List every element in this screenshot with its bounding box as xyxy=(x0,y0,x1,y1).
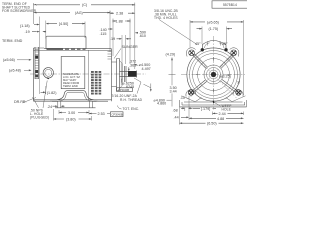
svg-text:.24: .24 xyxy=(47,105,52,109)
centerlines xyxy=(181,74,245,76)
note: terminal end of shaft text xyxy=(2,2,37,13)
dia 3.25 circle xyxy=(198,59,230,91)
thread note 7/16-20 xyxy=(112,94,143,102)
flange plate xyxy=(112,59,123,91)
svg-text:.68: .68 xyxy=(173,108,178,112)
dim .10 xyxy=(180,96,185,100)
svg-text:(6.50): (6.50) xyxy=(207,122,217,126)
svg-text:(PLUGGED): (PLUGGED) xyxy=(30,116,49,120)
top dome conduit hump xyxy=(203,41,227,49)
dim dia .6250/.6245 xyxy=(122,79,135,89)
terminal box xyxy=(44,36,112,49)
dim dia 4.500/4.497 flange pilot xyxy=(134,63,151,71)
svg-text:(⌀5.65): (⌀5.65) xyxy=(207,20,219,24)
svg-text:2.53: 2.53 xyxy=(98,112,105,116)
front bearing steps xyxy=(108,52,112,60)
svg-text:(AG): (AG) xyxy=(75,11,83,15)
svg-text:R.H. THREAD: R.H. THREAD xyxy=(120,98,143,102)
dim 2.38 xyxy=(110,12,135,16)
x mark xyxy=(238,81,240,83)
svg-text:(1.18): (1.18) xyxy=(20,24,30,28)
svg-text:3.00: 3.00 xyxy=(68,111,75,115)
dim .140/.115 stacked xyxy=(100,28,114,36)
rear stub slotted column xyxy=(35,47,39,79)
bolt heads near hump xyxy=(201,48,204,51)
svg-text:(1.75): (1.75) xyxy=(209,27,219,31)
dim dia 4.890/4.860 xyxy=(154,98,167,105)
svg-text:.115: .115 xyxy=(100,32,107,36)
top-right lug + hole xyxy=(230,48,239,57)
svg-text:45°: 45° xyxy=(195,42,201,46)
title block box xyxy=(212,1,248,8)
slinger disc xyxy=(125,66,127,82)
vent slots xyxy=(91,71,101,95)
svg-text:FOR SCREWDRIVER: FOR SCREWDRIVER xyxy=(2,9,37,13)
shaft centerline xyxy=(30,73,146,75)
motor shell outline xyxy=(34,48,112,101)
svg-text:[.179]: [.179] xyxy=(201,107,210,111)
dim (AG) xyxy=(34,11,111,15)
dim .19 left xyxy=(25,17,47,47)
svg-text:4.497: 4.497 xyxy=(142,67,151,71)
svg-text:[4.50]: [4.50] xyxy=(59,22,68,26)
svg-text:.19: .19 xyxy=(110,37,115,41)
svg-text:SLINGER: SLINGER xyxy=(122,45,139,49)
svg-text:1.88: 1.88 xyxy=(116,19,123,23)
(dia 3.25) label xyxy=(219,74,231,78)
dim .68 xyxy=(173,107,193,112)
dim .24 xyxy=(47,105,65,109)
dim (C) overall length xyxy=(34,3,135,24)
top-left lug + hole xyxy=(186,48,195,57)
svg-text:TERM. END: TERM. END xyxy=(2,39,23,43)
svg-text:TOT. ENC.: TOT. ENC. xyxy=(123,107,140,111)
dim .590/.610 xyxy=(135,30,146,38)
cover screws xyxy=(47,48,64,50)
nameplate xyxy=(61,57,85,89)
svg-text:4.860: 4.860 xyxy=(157,102,166,106)
dim [.179] xyxy=(193,107,217,111)
svg-text:(1.82): (1.82) xyxy=(47,91,57,95)
svg-text:(⌀5.66): (⌀5.66) xyxy=(3,58,15,62)
svg-text:(⌀5.48): (⌀5.48) xyxy=(9,69,21,73)
TOT. ENC. label xyxy=(123,107,140,111)
svg-text:.610: .610 xyxy=(139,34,146,38)
dim (1.82) xyxy=(40,46,57,95)
svg-text:CP3040B: CP3040B xyxy=(118,88,129,92)
svg-text:.19: .19 xyxy=(25,30,30,34)
dim (6.50) xyxy=(180,107,244,126)
dim (3.80) xyxy=(54,109,92,122)
note 3/8-16 UNC-2B holes xyxy=(154,9,179,20)
svg-text:CP3040B: CP3040B xyxy=(112,112,123,116)
dim 2.44 xyxy=(213,112,244,116)
dim [4.50] terminal box width xyxy=(46,22,85,38)
svg-text:4.88: 4.88 xyxy=(217,117,224,121)
svg-text:(⌀3.25): (⌀3.25) xyxy=(219,74,231,78)
svg-text:5575B14: 5575B14 xyxy=(223,3,237,7)
(dia 5.65) dim xyxy=(190,20,244,95)
(1.75) dim xyxy=(197,27,233,45)
svg-text:TERM. END: TERM. END xyxy=(63,84,78,88)
svg-text:THD. 4 HOLES: THD. 4 HOLES xyxy=(154,16,178,20)
dim (4.29) vertical xyxy=(166,52,176,106)
boxed callout CP3040B xyxy=(117,88,133,92)
extension lines right cluster xyxy=(110,3,135,70)
dim .44 xyxy=(174,108,190,120)
base foot side profile xyxy=(50,91,98,108)
rear hub circle xyxy=(43,68,53,79)
svg-text:45°: 45° xyxy=(222,42,228,46)
dim 4.88 xyxy=(189,96,244,121)
base of end view xyxy=(180,89,247,106)
WEEP HOLE note xyxy=(222,104,233,111)
dim 2.53 with boxed callout xyxy=(89,112,123,117)
dim 3.50/3.44 vertical xyxy=(144,84,177,94)
outer shell circle xyxy=(187,48,240,101)
shaft and threads xyxy=(120,71,137,78)
dim 1.88 xyxy=(113,19,130,23)
hub circles xyxy=(204,65,223,84)
flange pilot circle xyxy=(193,54,235,96)
dim .19 right slinger xyxy=(110,35,131,64)
dim .10 end view xyxy=(186,98,190,100)
svg-text:(C): (C) xyxy=(82,3,87,7)
svg-text:.365: .365 xyxy=(129,64,136,68)
leader to hole xyxy=(159,20,197,45)
svg-text:.44: .44 xyxy=(174,116,179,120)
svg-text:(4.29): (4.29) xyxy=(166,52,176,56)
svg-text:2.38: 2.38 xyxy=(116,12,123,16)
dim (1.18) xyxy=(20,24,40,28)
ribs at 45 deg xyxy=(192,54,237,93)
svg-text:(3.80): (3.80) xyxy=(66,118,76,122)
center shaft dark xyxy=(209,70,218,79)
left labels xyxy=(2,39,49,120)
dim 3.00 xyxy=(59,110,89,115)
svg-text:3.44: 3.44 xyxy=(170,90,177,94)
svg-text:2.44: 2.44 xyxy=(219,112,226,116)
SLINGER label and leader xyxy=(122,45,139,49)
dim .372/.365 shaft dia xyxy=(128,60,136,72)
45 deg labels xyxy=(195,42,228,46)
